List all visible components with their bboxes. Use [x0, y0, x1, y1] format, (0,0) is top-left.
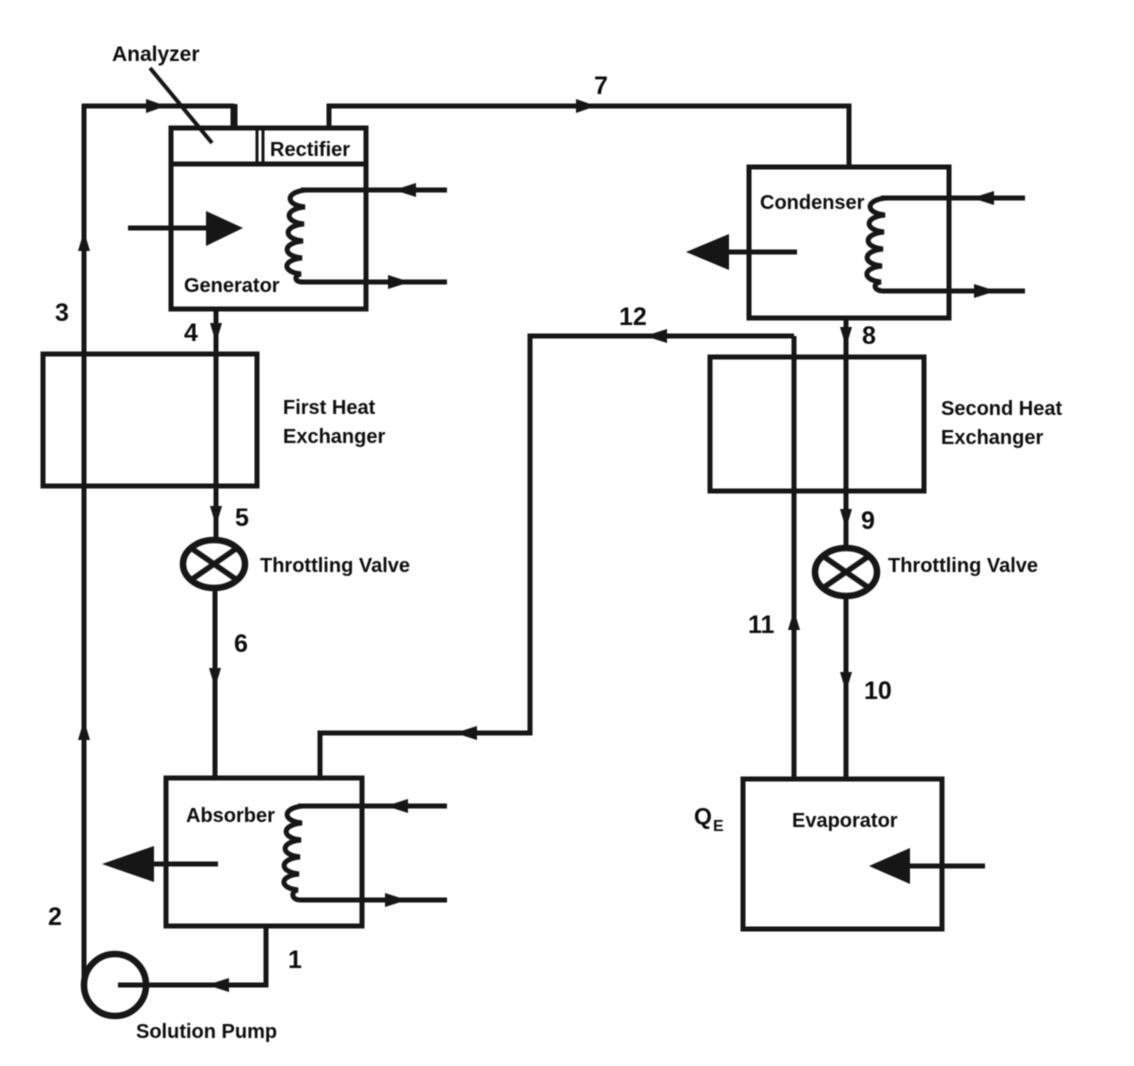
absorber coil inlet line (top): [298, 804, 447, 809]
generator coil outlet line (bottom): [302, 280, 447, 285]
wire 4-5: generator to first HX to valve: [214, 309, 219, 540]
absorber coil outlet line (bottom): [299, 898, 447, 903]
arrow right on wire 7: [576, 99, 596, 113]
wire 1: absorber to pump: [118, 926, 266, 985]
svg-text:Analyzer: Analyzer: [112, 43, 200, 66]
analyzer/rectifier divider (double line): [256, 128, 259, 164]
svg-text:8: 8: [862, 322, 876, 350]
arrow down (state 10): [840, 672, 852, 692]
arrow left on absorber coil inlet: [386, 799, 408, 813]
condenser coil: [867, 198, 886, 291]
arrow down (state 6): [209, 668, 221, 688]
arrow right on absorber coil outlet: [385, 893, 407, 907]
svg-text:Rectifier: Rectifier: [270, 139, 350, 161]
svg-text:Throttling Valve: Throttling Valve: [260, 555, 410, 577]
wire 10: valve to evaporator: [844, 594, 849, 779]
svg-text:Condenser: Condenser: [760, 192, 865, 214]
svg-text:Exchanger: Exchanger: [283, 426, 385, 448]
svg-text:Q: Q: [694, 803, 712, 829]
svg-text:Solution Pump: Solution Pump: [136, 1021, 277, 1043]
svg-text:Second Heat: Second Heat: [941, 398, 1062, 420]
generator G box: [171, 128, 366, 309]
arrow right on coil outlet: [388, 275, 410, 289]
wire: top horizontal into analyzer: [82, 104, 234, 109]
arrow down (state 8): [840, 327, 852, 347]
svg-text:First Heat: First Heat: [283, 397, 376, 419]
svg-text:4: 4: [184, 319, 198, 347]
wire 12: junction to absorber: [320, 336, 794, 778]
svg-text:12: 12: [619, 303, 647, 331]
throttling valve TV2: [815, 548, 877, 596]
arrow left (state 12): [645, 329, 667, 343]
heat-out arrow from condenser: [727, 250, 797, 255]
arrow down (state 5): [210, 506, 222, 526]
condenser coil inlet line (top): [881, 196, 1025, 201]
svg-text:3: 3: [55, 299, 69, 327]
svg-text:6: 6: [234, 630, 248, 658]
second heat exchanger box: [710, 357, 924, 491]
condenser coil outlet line (bottom): [882, 289, 1025, 294]
arrow left on coil inlet: [394, 183, 416, 197]
svg-text:1: 1: [288, 946, 302, 974]
arrow left on condenser coil inlet: [972, 191, 994, 205]
svg-text:Exchanger: Exchanger: [941, 427, 1043, 449]
arrow up (state 11): [788, 610, 800, 630]
arrow on top wire (right): [146, 99, 166, 113]
svg-text:Generator: Generator: [184, 275, 280, 297]
wire 7: generator top to condenser: [329, 106, 849, 168]
heat-in arrow into generator: [128, 226, 212, 231]
analyzer pointer line: [150, 68, 212, 143]
arrow down (state 4): [210, 323, 222, 343]
generator heating coil: [287, 190, 306, 282]
arrow up on riser (state 3): [78, 231, 90, 251]
wire 6: valve to absorber: [213, 586, 218, 778]
heat-out arrow from absorber: [152, 862, 218, 867]
svg-text:2: 2: [48, 903, 62, 931]
first heat exchanger box: [43, 354, 257, 486]
solution pump circle: [84, 954, 146, 1016]
svg-text:E: E: [713, 818, 724, 835]
wire: pump to top-left riser (states 2,3): [82, 104, 87, 985]
absorber cooling coil: [284, 806, 303, 900]
condenser box: [749, 167, 949, 318]
svg-text:10: 10: [864, 677, 892, 705]
generator top strip line: [171, 162, 366, 167]
throttling valve TV1: [183, 540, 245, 588]
svg-text:Absorber: Absorber: [186, 805, 275, 827]
arrow right on condenser coil outlet: [974, 284, 996, 298]
evaporator box: [743, 779, 942, 929]
svg-text:Throttling Valve: Throttling Valve: [888, 555, 1038, 577]
arrow left (state 1): [207, 978, 229, 992]
arrow up on riser (state 2): [78, 720, 90, 740]
svg-text:7: 7: [594, 72, 608, 100]
svg-text:11: 11: [748, 611, 775, 639]
svg-text:9: 9: [861, 507, 875, 535]
svg-text:5: 5: [235, 504, 249, 532]
svg-text:Evaporator: Evaporator: [792, 810, 898, 832]
wire 11: evaporator up to junction: [792, 336, 797, 779]
heat-in arrow into evaporator: [906, 864, 985, 869]
absorber box: [166, 778, 362, 926]
generator coil inlet line (top): [301, 188, 447, 193]
arrow left on return to absorber: [455, 726, 477, 740]
arrow down (state 9): [840, 509, 852, 529]
wire 8-9: condenser to second HX to valve: [844, 318, 849, 548]
